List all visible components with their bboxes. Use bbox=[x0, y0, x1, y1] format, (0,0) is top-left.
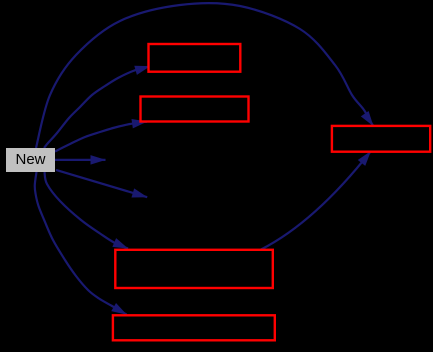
edge New->hidden node (horizontal) bbox=[55, 159, 106, 161]
node box2 bbox=[141, 97, 249, 122]
edge New->box2 bbox=[55, 122, 147, 152]
edge New->hidden node (down-right) bbox=[56, 170, 147, 197]
edge large box->right box bbox=[261, 151, 371, 249]
edge New->bottom box bbox=[35, 172, 127, 315]
node large box bbox=[115, 250, 272, 288]
node right box bbox=[332, 126, 430, 152]
node bottom box bbox=[113, 315, 275, 340]
edge New->large box bbox=[45, 172, 129, 249]
node New bbox=[6, 148, 55, 172]
svg-text:New: New bbox=[15, 151, 45, 168]
edge New->box1 bbox=[44, 66, 150, 148]
node box1 (top) bbox=[149, 44, 241, 72]
edge New->right box (over the top) bbox=[36, 3, 373, 148]
